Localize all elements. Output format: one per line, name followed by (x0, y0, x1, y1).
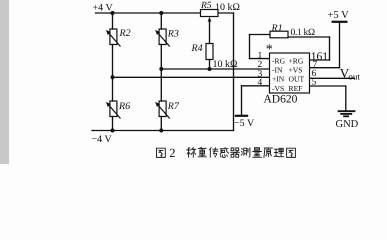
svg-text:2: 2 (258, 60, 263, 70)
node: R6 bottom junction (111, 129, 115, 133)
wire: R5 wiper to R4 top (209, 21, 211, 44)
caption char 测 (241, 148, 250, 157)
caption char 量 (253, 148, 262, 158)
wire: R1 drop to pin 8 (329, 37, 331, 60)
svg-text:REF: REF (289, 84, 303, 93)
caption char 原 (264, 148, 273, 157)
node: bridge left midpoint (111, 75, 115, 79)
caption char 理 (274, 148, 283, 156)
resistor R4 body (206, 44, 213, 60)
strain gauge R6 body (109, 101, 120, 119)
svg-text:R2: R2 (119, 28, 131, 39)
wire: pin8 stub (310, 59, 330, 61)
caption char 图 (157, 148, 166, 157)
svg-text:0.1 kΩ: 0.1 kΩ (291, 28, 316, 38)
svg-text:−4 V: −4 V (92, 134, 113, 145)
svg-text:AD620: AD620 (264, 94, 298, 106)
wire: right bridge vertical bottom (R7 to rail) (160, 117, 162, 131)
wire: pin7 stub to +5V (310, 67, 340, 69)
svg-text:-IN: -IN (272, 66, 283, 75)
svg-text:*: * (266, 43, 273, 58)
potentiometer R5 wiper arrowhead (208, 17, 212, 22)
wire: pin4 drop to -5V (241, 86, 243, 116)
svg-text:R5: R5 (200, 1, 212, 11)
wire: +IN net (bridge left midpoint to pin 3) (113, 76, 270, 78)
svg-text:R7: R7 (167, 101, 180, 112)
strain gauge R3 body (159, 29, 170, 47)
wire: R4 bottom lead to -IN net (209, 60, 211, 70)
caption char 称 (187, 148, 196, 158)
node: R2 top junction (111, 11, 115, 15)
wire: pin4 stub (242, 85, 270, 87)
svg-text:+RG: +RG (289, 56, 304, 65)
resistor R1 body (270, 31, 288, 38)
node: bridge right midpoint (159, 67, 163, 71)
wire: pin5 REF stub (310, 85, 346, 87)
caption char 传 (210, 148, 219, 158)
node: R7 bottom junction (159, 129, 163, 133)
svg-text:5: 5 (312, 78, 317, 88)
wire: rail from R5 to right-side drop (218, 12, 234, 14)
svg-text:10 kΩ: 10 kΩ (213, 59, 238, 70)
wire: R1 right lead (288, 36, 330, 38)
svg-text:OUT: OUT (289, 75, 305, 84)
wire: +5V vertical (339, 22, 341, 68)
wire: R1 left lead (250, 34, 271, 36)
wire: right-side vertical (R5 end to -4V rail) (233, 13, 235, 131)
wire: +4V top rail (left of R5) (96, 12, 201, 14)
wire: -4V bottom rail (92, 130, 234, 132)
svg-text:R4: R4 (191, 43, 203, 54)
svg-text:+VS: +VS (289, 66, 303, 75)
wire: right bridge vertical top (rail to R3) (160, 13, 162, 29)
svg-text:GND: GND (336, 119, 359, 130)
caption char 感 (220, 147, 229, 157)
wire: left bridge vertical bottom (R6 to rail) (112, 117, 114, 131)
svg-text:-VS: -VS (272, 84, 284, 93)
wire: pin1 stub (250, 58, 270, 60)
strain gauge R2 body (109, 29, 120, 47)
svg-text:+IN: +IN (272, 75, 285, 84)
caption: 图2 称重传感器测量原理图 (157, 147, 296, 157)
svg-text:2: 2 (169, 146, 175, 160)
wire: left bridge vertical top (rail to R2) (112, 13, 114, 29)
wire: pin6 output to Vout (310, 77, 355, 79)
ground symbol (338, 111, 356, 116)
-5 V supply bar (235, 115, 248, 117)
svg-text:-RG: -RG (272, 56, 286, 65)
svg-text:R3: R3 (167, 29, 179, 40)
wire: -IN net (bridge right midpoint to pin 2) (161, 68, 269, 70)
svg-text:+5 V: +5 V (328, 10, 350, 21)
wire: right bridge vertical middle (R3 to R7) (160, 45, 162, 102)
potentiometer R5 body (201, 10, 219, 17)
caption char 重 (198, 147, 207, 157)
svg-text:R6: R6 (118, 101, 130, 112)
caption char 器 (230, 148, 239, 157)
svg-text:−5 V: −5 V (234, 118, 255, 129)
node: R3 top junction (159, 11, 163, 15)
svg-text:10 kΩ: 10 kΩ (215, 2, 240, 13)
svg-text:+4 V: +4 V (93, 3, 114, 14)
node: R4 to -IN junction (208, 67, 212, 71)
svg-text:R1: R1 (271, 23, 283, 34)
wire: REF drop to ground (345, 86, 347, 111)
wire: left bridge vertical middle (R2 to R6) (112, 45, 114, 102)
wire: pin1 riser to R1 (249, 35, 251, 59)
caption char 图 (second) (287, 148, 296, 157)
svg-text:4: 4 (258, 78, 263, 88)
op-amp U1 AD620 body (270, 53, 310, 93)
scanner edge strip (0, 0, 9, 164)
svg-text:out: out (348, 71, 360, 81)
strain gauge R7 body (159, 101, 170, 119)
+5 V supply bar (332, 21, 348, 23)
